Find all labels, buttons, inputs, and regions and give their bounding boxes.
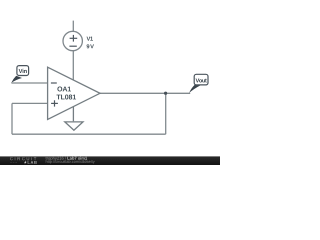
- ground: [65, 107, 83, 131]
- flag Vin: [11, 66, 28, 83]
- watermark text line 2: [46, 160, 95, 164]
- wire + input horizontal: [12, 102, 48, 104]
- wire bottom of feedback loop: [12, 133, 166, 135]
- wire right vertical of feedback loop: [165, 93, 167, 134]
- label V1 9 V: [87, 37, 94, 49]
- wire V1 to op-amp V+ pin: [72, 51, 74, 80]
- junction node at output: [164, 92, 167, 95]
- wire Vin to inverting input: [11, 82, 47, 84]
- watermark bar: [0, 156, 220, 165]
- wire top stub of V1: [72, 21, 74, 32]
- wire op-amp output: [100, 92, 190, 94]
- wire left vertical of feedback loop: [11, 103, 13, 134]
- voltage source V1: [63, 31, 82, 50]
- CircuitLab logo: [10, 157, 37, 164]
- flag Vout: [189, 74, 208, 93]
- watermark text line 1: [46, 157, 66, 161]
- op-amp OA1 TL081: [48, 67, 100, 119]
